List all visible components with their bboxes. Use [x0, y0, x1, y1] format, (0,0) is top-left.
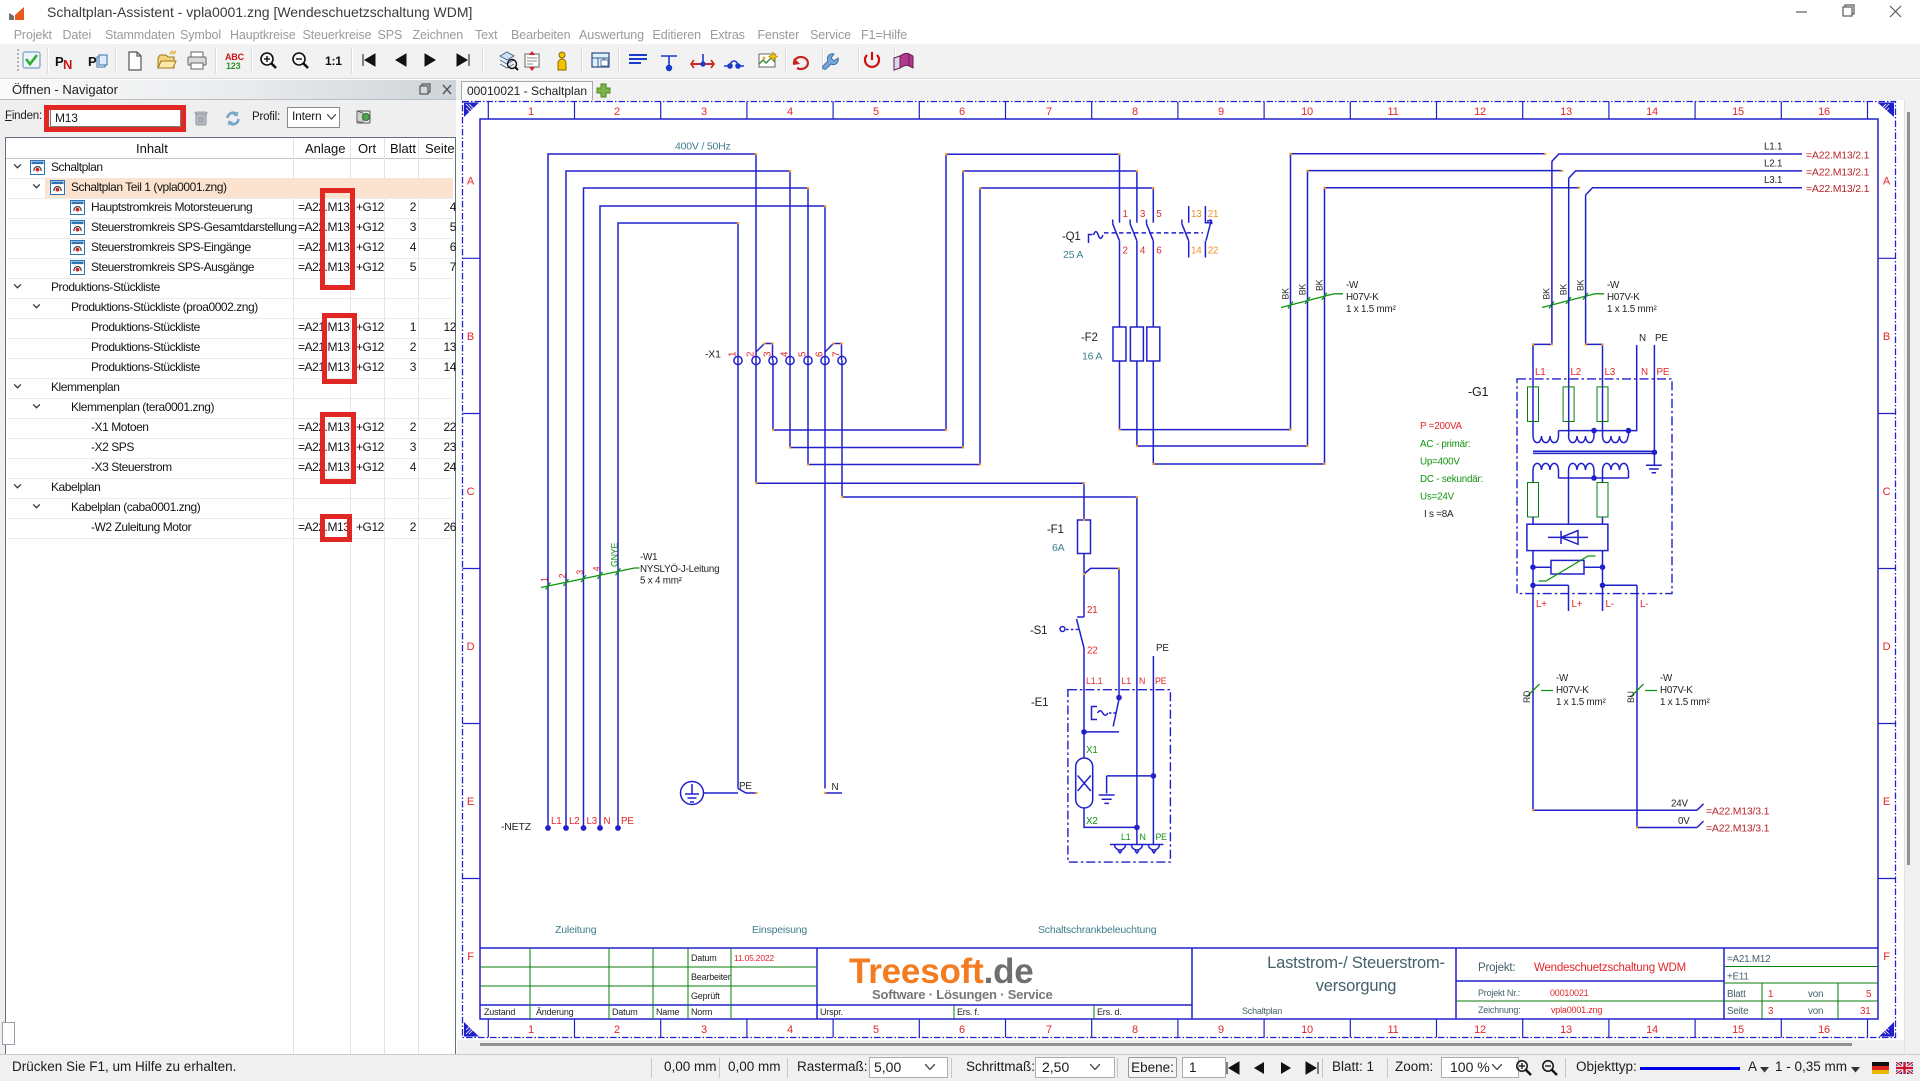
toolbar: [0, 44, 1920, 79]
wire lamp feed from X1:2 to fuse F1: [756, 360, 1084, 520]
wire L1 from NETZ up and to terminal X1:2: [548, 154, 756, 828]
cable W label set 1: [1346, 280, 1396, 315]
breaker Q1 contact poles: [1113, 220, 1154, 328]
status bar: [0, 1054, 1920, 1081]
wire L2 drop into G1: [1568, 178, 1570, 436]
cable W marker BU: [1631, 684, 1658, 697]
breaker Q1 pin numbers: [1123, 209, 1163, 257]
G1 secondary windings: [1533, 463, 1559, 470]
G1 input wire labels: [1535, 367, 1670, 378]
check board: [23, 52, 40, 68]
menu bar: [0, 24, 1920, 44]
G1 secondary fuses: [1528, 483, 1609, 518]
PB pages: [88, 54, 107, 69]
wire L- to 0V exit: [1637, 585, 1704, 827]
breaker Q1 aux contact 13-14: [1182, 206, 1189, 258]
connection point: [691, 54, 714, 68]
wire from F1 to switch S1: [1083, 554, 1085, 618]
wire PE from NETZ through terminal X1:1 to PE net endpoint: [618, 223, 757, 828]
ruler numbers bottom: [528, 1024, 1830, 1036]
title block structure: [480, 948, 1878, 1019]
junction dots: [1081, 428, 1657, 830]
refresh icon: [224, 110, 242, 127]
breaker Q1 aux contact 21-22: [1205, 206, 1212, 258]
transformer G1 enclosure: [1517, 379, 1672, 594]
wire L3 from F2 to riser and sheet exit L3.1: [1153, 188, 1579, 464]
wire N below X1:6 to N net endpoint: [825, 360, 842, 793]
G1 secondary links: [1559, 470, 1629, 478]
svg-text:1:1: 1:1: [325, 54, 342, 68]
wire L1 below X1:3 to riser and over to Q1 pin 1: [773, 154, 1120, 430]
ruler row ticks: [463, 258, 1896, 878]
undo: [793, 57, 808, 69]
earth symbol in E1: [1099, 776, 1154, 804]
lamp E1: [1084, 732, 1137, 828]
wire L2 from NETZ through terminal X1:4 riser to Q1 pin 3: [566, 171, 1137, 828]
potential: [661, 56, 677, 70]
luminaire E1 wire labels: [1086, 676, 1167, 686]
ruler column ticks top: [488, 102, 1867, 120]
G1 varistor: [1533, 551, 1603, 586]
trash icon: [193, 110, 209, 127]
G1 primary fuses: [1528, 387, 1609, 422]
terminal strip X1 circles: [734, 356, 846, 364]
luminaire E1 enclosure: [1068, 690, 1171, 862]
wire L1 from F2 to riser and sheet exit L1.1: [1120, 154, 1546, 430]
cable W marker BK set 1: [1281, 294, 1343, 308]
wire N from NETZ to terminal X1:6: [600, 206, 825, 828]
sheet red arrows: [525, 51, 539, 71]
ruler row letters: [467, 176, 1891, 964]
Treesoft logo: [849, 952, 1053, 1002]
wire L+ to 24V exit: [1533, 585, 1704, 810]
G1 output labels: [1536, 599, 1648, 610]
book: [894, 53, 913, 70]
wire PE drop into G1: [1653, 345, 1655, 465]
E1 connector labels: [1121, 832, 1167, 842]
earth symbol in G1: [1646, 465, 1662, 472]
zoom in / out: [261, 53, 276, 68]
fuse F1: [1078, 520, 1091, 554]
G1 primary windings: [1533, 436, 1559, 443]
page inner frame: [480, 119, 1878, 1019]
svg-text:N: N: [63, 57, 72, 72]
wire endpoint ticks: [737, 153, 1638, 829]
blue lines: [629, 55, 647, 63]
svg-text:123: 123: [226, 61, 241, 71]
power: [865, 52, 879, 67]
book icon: [355, 108, 373, 126]
ground earth symbol: [681, 782, 739, 805]
wire L2 from F2 to riser and sheet exit L2.1: [1137, 171, 1562, 446]
cable W marker RD: [1527, 684, 1554, 697]
printer: [188, 52, 206, 69]
terminal X1 pin numbers: [728, 351, 843, 357]
wire L1 jumper X1:2 to X1:3: [756, 344, 773, 361]
title bar: [0, 0, 1920, 24]
title block texts left table: [484, 953, 1122, 1017]
fuse F2 three poles: [1113, 327, 1160, 361]
wire N drop into G1: [1559, 345, 1637, 431]
open folder: [158, 51, 176, 68]
G1 core: [1533, 451, 1654, 453]
nav: [363, 54, 469, 66]
cable W label RD: [1556, 673, 1606, 708]
tab bar: [456, 80, 1920, 100]
wire N jumper X1:6 to X1:7: [825, 344, 842, 361]
table monitor: [592, 53, 609, 67]
left panel: [0, 80, 456, 1054]
switch S1: [1077, 617, 1085, 648]
cable W label set 2: [1607, 280, 1657, 315]
ruler column ticks bottom: [488, 1019, 1867, 1038]
cable W1 marker: [541, 568, 640, 588]
G1 rectifier: [1527, 524, 1608, 550]
title block right: [1727, 954, 1823, 1017]
wire L3 drop into G1: [1586, 195, 1603, 436]
cable W1 conductor numbers: [540, 566, 602, 582]
wrench: [823, 54, 839, 70]
page outer dash-dot border: [463, 102, 1896, 1038]
thermostat switch in E1: [1084, 699, 1119, 732]
NETZ pin labels: [551, 816, 634, 827]
page background: [457, 100, 1904, 1040]
header row: [6, 138, 453, 159]
NETZ connector dots: [545, 825, 621, 831]
wire N below X1:7 to lamp circuit: [842, 360, 1137, 845]
breaker Q1 trip unit and linkage: [1089, 232, 1103, 243]
ABC123: [225, 52, 245, 71]
wire L1 drop into G1: [1533, 161, 1552, 436]
wire from S1 into luminaire E1: [1083, 648, 1085, 732]
cable W marker BK set 2: [1542, 294, 1604, 308]
PN: [55, 54, 72, 72]
bridge: [724, 61, 744, 68]
frame corner triangles: [464, 103, 1894, 1037]
E1 bottom connector: [1110, 844, 1164, 846]
cable W1 label: [640, 552, 719, 587]
red annotation boxes: [44, 105, 186, 132]
layers search: [500, 52, 518, 70]
wire L3 from NETZ through terminal X1:5 riser to Q1 pin 5: [584, 188, 1154, 828]
G1 secondary outputs: [1533, 470, 1603, 524]
image sparkle: [759, 52, 778, 67]
wire PE into E1: [1152, 656, 1154, 845]
info: [558, 52, 566, 70]
cable W label BU: [1660, 673, 1710, 708]
wire branch to lamp terminal L1: [1084, 568, 1119, 697]
ruler numbers top: [528, 106, 1830, 118]
G1 primary star links: [1559, 431, 1629, 436]
new doc: [129, 52, 141, 70]
svg-text:P: P: [88, 54, 97, 69]
G1 output links: [1533, 585, 1637, 611]
